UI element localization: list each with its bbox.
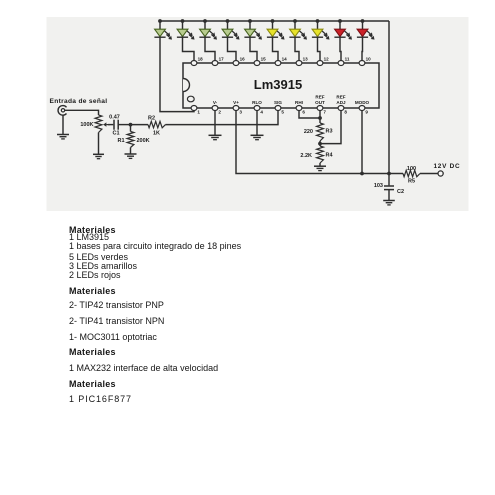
pin 2 (bottom) [212, 106, 221, 115]
LED D10 [357, 21, 375, 40]
pin 10 (top) [359, 56, 371, 65]
pin 8 (bottom) [338, 106, 347, 115]
wire: pin 7 REF OUT down [319, 110, 321, 123]
junction on anode rail for D8 [316, 19, 320, 23]
potentiometer 100K [95, 115, 110, 133]
pin 18 (top) [191, 56, 203, 65]
pin 15 (top) [254, 56, 266, 65]
junction on anode rail for D3 [203, 19, 207, 23]
capacitor C1 0.47 [114, 120, 118, 130]
resistor R5 100 [403, 170, 420, 176]
capacitor C2 103 [384, 186, 394, 190]
wire: pin 2 V- to ground [214, 110, 216, 135]
LED D4 [222, 21, 240, 40]
node: R3/R4/pin8 junction [318, 142, 322, 146]
wire: D5 cathode to pin 15 [250, 37, 257, 60]
junction on anode rail for D7 [293, 19, 297, 23]
ground (C2) [383, 201, 395, 205]
wire: R1 to ground [130, 148, 132, 155]
pin 17 (top) [212, 56, 224, 65]
op-amp/IC U1 LM3915 body [183, 63, 379, 108]
wire: pin 9 MODO down to rail [361, 110, 363, 173]
junction on anode rail for D1 [158, 19, 162, 23]
pin 11 (top) [338, 56, 350, 65]
ground (R4) [314, 166, 326, 170]
junction on anode rail for D5 [248, 19, 252, 23]
node: right rail / V+ rail junction [387, 172, 391, 176]
node: pin 9 / V+ rail junction [360, 172, 364, 176]
wire: pin 3 V+ down and right to supply rail [236, 110, 403, 173]
pin label REF OUT [315, 94, 325, 104]
wire: D2 cathode to pin 18 [183, 37, 195, 60]
pin 16 (top) [233, 56, 245, 65]
junction on anode rail for D2 [181, 19, 185, 23]
wire: R2 to SIG pin 5 [166, 110, 279, 124]
wire: junction down to R1 [130, 125, 132, 132]
wire: D3 cathode to pin 17 [205, 37, 215, 60]
schematic panel background [47, 17, 469, 211]
wire: pin 4 RLO to ground [256, 110, 258, 135]
resistor R3 220 [317, 123, 324, 141]
wire: D7 cathode to pin 13 [295, 37, 299, 60]
node: pin6/pin7 junction [318, 116, 322, 120]
LED D2 [177, 21, 195, 40]
wire: right vertical V+ rail [388, 21, 390, 174]
pin 5 (bottom) [275, 106, 284, 115]
wire: R4 to ground [319, 163, 321, 166]
wire: D10 cathode to pin 10 [361, 37, 364, 60]
terminal: 12V DC [438, 171, 443, 176]
pin 12 (top) [317, 56, 329, 65]
junction on anode rail for D4 [226, 19, 230, 23]
wire: jack ground stem [62, 115, 64, 134]
ground (jack) [57, 135, 69, 139]
LED D9 [334, 21, 352, 40]
LED D6 [267, 21, 285, 40]
wire: C2 to ground [388, 190, 390, 201]
wire: D4 cathode to pin 16 [228, 37, 237, 60]
resistor R1 200K [127, 132, 134, 148]
resistor R2 1K [148, 121, 166, 127]
pin 1 (bottom) [191, 106, 200, 115]
pin 4 (bottom) [254, 106, 263, 115]
pin 3 (bottom) [233, 106, 242, 115]
wire: C1 to junction [118, 124, 130, 126]
LED D1 [154, 21, 172, 40]
ground (pot) [93, 154, 104, 158]
wire: LED anode supply rail (top) [160, 20, 389, 22]
pin 6 (bottom) [296, 106, 305, 115]
wire: wiper to C1 [108, 124, 113, 126]
pin 7 (bottom) [317, 106, 326, 115]
LED D3 [199, 21, 217, 40]
LED D5 [244, 21, 262, 40]
ground (pin 2) [209, 135, 222, 139]
resistor R4 2.2K [317, 146, 324, 163]
junction on anode rail for D9 [338, 19, 342, 23]
junction on anode rail for D6 [271, 19, 275, 23]
pin 9 (bottom) [359, 106, 368, 115]
pin label REF ADJ [336, 94, 346, 104]
wire: D6 cathode to pin 14 [273, 37, 279, 60]
wire: D8 cathode to pin 12 [318, 37, 321, 60]
junction on anode rail for D10 [361, 19, 365, 23]
wire: pin 6 RHI to pin 7 net [299, 110, 320, 118]
wire: R5 to supply terminal [420, 173, 438, 175]
pin 14 (top) [275, 56, 287, 65]
pin 13 (top) [296, 56, 308, 65]
ground (R1) [125, 154, 137, 158]
connector J1 input jack [58, 106, 66, 116]
wire: junction to R2 [131, 124, 149, 126]
LED D8 [312, 21, 330, 40]
node: C1/R1/R2 junction [129, 123, 133, 127]
wire: pot to ground [98, 133, 100, 155]
LED D7 [289, 21, 307, 40]
wire: jack to potentiometer [65, 110, 99, 115]
wire: R3 to R4 [319, 141, 321, 146]
wire: D9 cathode to pin 11 [340, 37, 341, 60]
wire: rail to C2 [388, 174, 390, 186]
wire: junction to pin 8 REF ADJ [320, 110, 341, 143]
wire: D1 cathode to pin 1 [160, 37, 194, 111]
ground (pin 4) [251, 135, 264, 139]
